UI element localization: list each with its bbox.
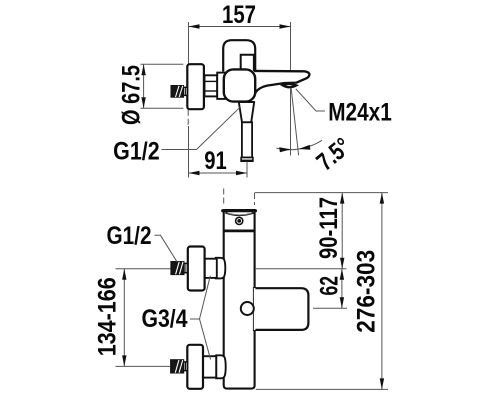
valve body [224,69,255,101]
wire: right bottom extension line [256,388,388,390]
upper threaded plug (hatched) [171,262,184,275]
wire: 134-166 bottom extension line [116,365,171,367]
aerator M24x1 outlet lens [283,84,297,87]
svg-text:90-117: 90-117 [315,197,343,259]
svg-text:M24x1: M24x1 [328,99,392,127]
lower union barrel [216,355,226,378]
top cap edge [223,209,256,212]
lower plug stem [184,362,188,371]
hand-shower tube [242,122,252,157]
svg-text:62: 62 [316,276,344,296]
tube end cap [241,158,253,162]
threaded plug stem [184,87,188,95]
lower threaded plug (hatched) [171,360,184,373]
body column [224,210,255,389]
handle stem lines [241,55,254,72]
wire: G1/2 front leader [155,235,178,261]
handle lever [223,40,255,71]
spout arm (front view) [254,288,308,330]
wire: projection dash left [223,189,225,206]
wire: wall centerline dashed below escutcheon [187,110,189,126]
upper union nut [205,259,217,278]
lower wall flange [187,345,203,389]
lower union nut [203,356,216,377]
escutcheon [187,64,204,109]
wire: 62 bottom extension line [313,307,347,309]
spout [252,71,309,98]
collar [217,73,225,99]
svg-text:157: 157 [222,1,256,29]
thread nipple [205,75,218,96]
wire: G1/2 leader [162,107,241,150]
wire: projection dash right [254,193,256,205]
svg-text:134-166: 134-166 [94,277,122,356]
wire: right mid extension line (connection centre) [256,268,347,270]
angle arc with arrows [276,140,322,149]
svg-text:G3/4: G3/4 [142,305,188,333]
dimension 157 line with arrows [189,26,291,28]
svg-text:91: 91 [204,147,227,175]
column re-edge over arm joint [254,288,256,330]
wire: right top extension line [255,192,389,194]
dimension Ø67.5 line with arrows [143,64,145,108]
dimension 62 line with arrows [341,269,343,308]
joint band [223,229,255,232]
svg-text:276-303: 276-303 [353,250,381,333]
wire: 157 left extension line [188,22,190,64]
dimension 90-117 line with arrows [341,193,343,269]
wire: 7.5 degree tilted line [291,89,298,156]
wire: angle vertical reference line below spout [290,89,292,156]
wire: 91 right extension line [246,162,248,178]
upper plug stem [184,263,188,272]
dimension 91 line with arrows [189,172,248,174]
upper union barrel [216,258,226,279]
cap lens [225,213,253,216]
wire: 157 right extension line above spout [290,22,292,71]
upper wall flange [188,247,205,291]
wire: G3/4 leader with two branches [190,276,211,360]
svg-text:G1/2: G1/2 [113,138,160,166]
svg-text:G1/2: G1/2 [107,222,152,250]
wire: 91 left extension line [188,126,190,178]
screw [236,217,243,224]
diverter knob [241,302,254,315]
wire: 134-166 top extension line [116,268,171,270]
wire: M24x1 leader [296,89,325,111]
threaded plug (hatched) [171,86,184,98]
dimension 134-166 line with arrows [123,269,125,367]
svg-text:Ø 67.5: Ø 67.5 [118,65,146,125]
wire: Ø67.5 top extension line [141,63,184,65]
wire: Ø67.5 bottom extension line [141,107,184,109]
hand-shower connector taper [239,102,254,122]
dimension 276-303 line with arrows [381,193,383,390]
